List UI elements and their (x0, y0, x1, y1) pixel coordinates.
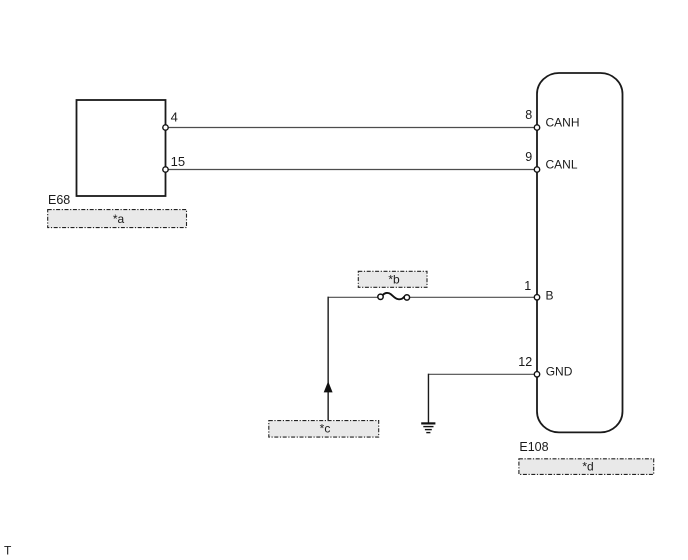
svg-text:CANH: CANH (546, 115, 580, 129)
svg-text:*a: *a (113, 212, 125, 226)
wire B right segment (fuse to pin1 E108) (407, 296, 537, 298)
wire GND horizontal (428, 373, 537, 375)
svg-text:B: B (546, 289, 554, 303)
svg-text:15: 15 (171, 154, 185, 169)
fuse F (symbol on B wire) (383, 293, 405, 299)
svg-text:4: 4 (171, 109, 178, 124)
note box *a (48, 210, 187, 228)
note box *d (519, 459, 654, 475)
pin 12 terminal circle (E108) (534, 372, 539, 377)
fuse terminal circle left (378, 294, 383, 299)
svg-text:*d: *d (582, 459, 593, 473)
note box *b (358, 271, 427, 287)
wire B left segment (corner to fuse) (328, 296, 381, 298)
svg-text:CANL: CANL (546, 158, 578, 172)
pin 8 terminal circle (E108) (534, 125, 539, 130)
svg-text:*b: *b (388, 272, 400, 286)
wire CANL (pin15 E68 to pin9 E108) (166, 169, 538, 171)
ground symbol (421, 423, 435, 432)
svg-text:1: 1 (524, 279, 531, 293)
connector E108 body (537, 73, 623, 432)
pin 4 terminal circle (E68) (163, 125, 168, 130)
component E68 box (77, 100, 166, 196)
wire battery feed vertical (327, 297, 329, 421)
svg-text:12: 12 (518, 355, 532, 369)
pin 1 terminal circle (E108) (534, 295, 539, 300)
svg-text:GND: GND (546, 365, 573, 379)
note box *c (269, 421, 379, 438)
svg-text:T: T (4, 544, 12, 558)
wire CANH (pin4 E68 to pin8 E108) (166, 127, 538, 129)
svg-text:9: 9 (525, 150, 532, 164)
svg-text:E68: E68 (48, 193, 70, 207)
fuse terminal circle right (404, 295, 409, 300)
arrow battery feed (pointing up) (324, 381, 333, 392)
pin 15 terminal circle (E68) (163, 167, 168, 172)
pin 9 terminal circle (E108) (534, 167, 539, 172)
wire ground vertical (427, 374, 429, 423)
svg-text:E108: E108 (519, 440, 548, 454)
svg-text:*c: *c (320, 422, 331, 436)
svg-text:8: 8 (525, 108, 532, 122)
